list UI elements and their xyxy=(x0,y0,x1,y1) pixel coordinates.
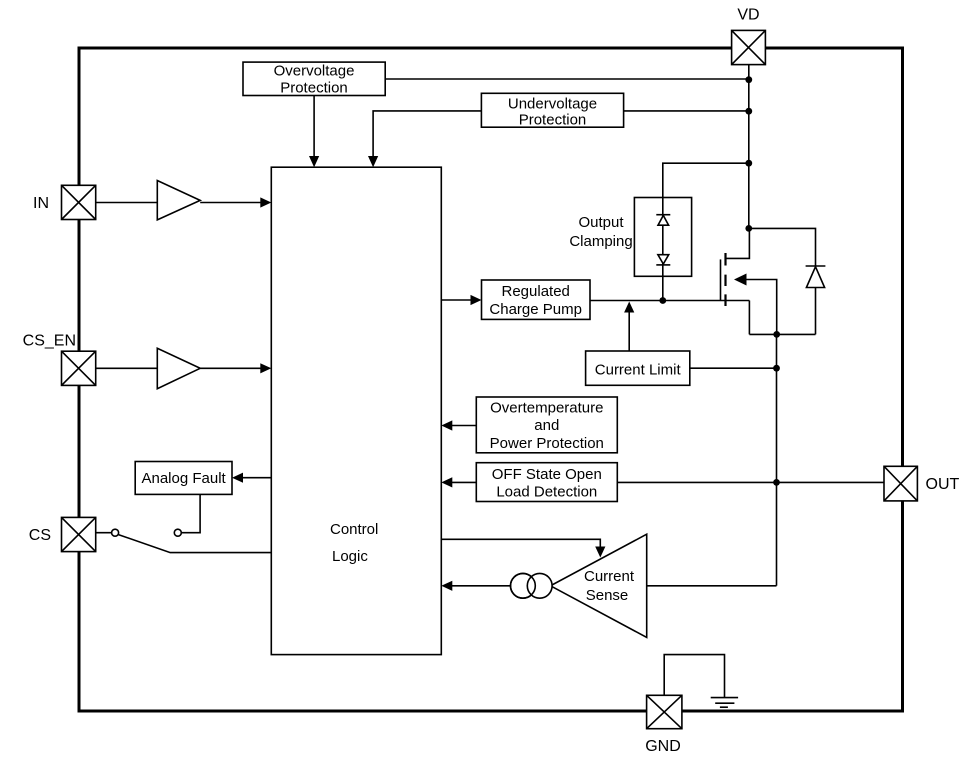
svg-text:GND: GND xyxy=(645,738,681,755)
svg-text:Clamping: Clamping xyxy=(569,233,632,250)
svg-text:CS_EN: CS_EN xyxy=(23,333,76,350)
svg-text:IN: IN xyxy=(33,195,49,212)
svg-text:Charge Pump: Charge Pump xyxy=(489,301,582,318)
svg-text:Undervoltage: Undervoltage xyxy=(508,95,597,112)
svg-text:Current Limit: Current Limit xyxy=(595,362,682,379)
svg-text:Regulated: Regulated xyxy=(502,283,570,300)
svg-text:and: and xyxy=(534,417,559,434)
svg-text:Sense: Sense xyxy=(586,587,629,604)
svg-text:Output: Output xyxy=(578,214,624,231)
svg-text:CS: CS xyxy=(29,527,51,544)
svg-text:Protection: Protection xyxy=(519,111,587,128)
svg-text:VD: VD xyxy=(737,7,759,24)
svg-text:Protection: Protection xyxy=(280,79,348,96)
svg-text:Overvoltage: Overvoltage xyxy=(274,63,355,80)
svg-text:OUT: OUT xyxy=(926,476,960,493)
svg-text:Overtemperature: Overtemperature xyxy=(490,400,603,417)
svg-text:Power Protection: Power Protection xyxy=(490,435,604,452)
svg-text:Analog Fault: Analog Fault xyxy=(141,470,226,487)
svg-text:Control: Control xyxy=(330,521,378,538)
svg-text:Current: Current xyxy=(584,568,635,585)
svg-text:OFF State Open: OFF State Open xyxy=(492,466,602,483)
svg-text:Logic: Logic xyxy=(332,548,368,565)
svg-text:Load Detection: Load Detection xyxy=(496,484,597,501)
